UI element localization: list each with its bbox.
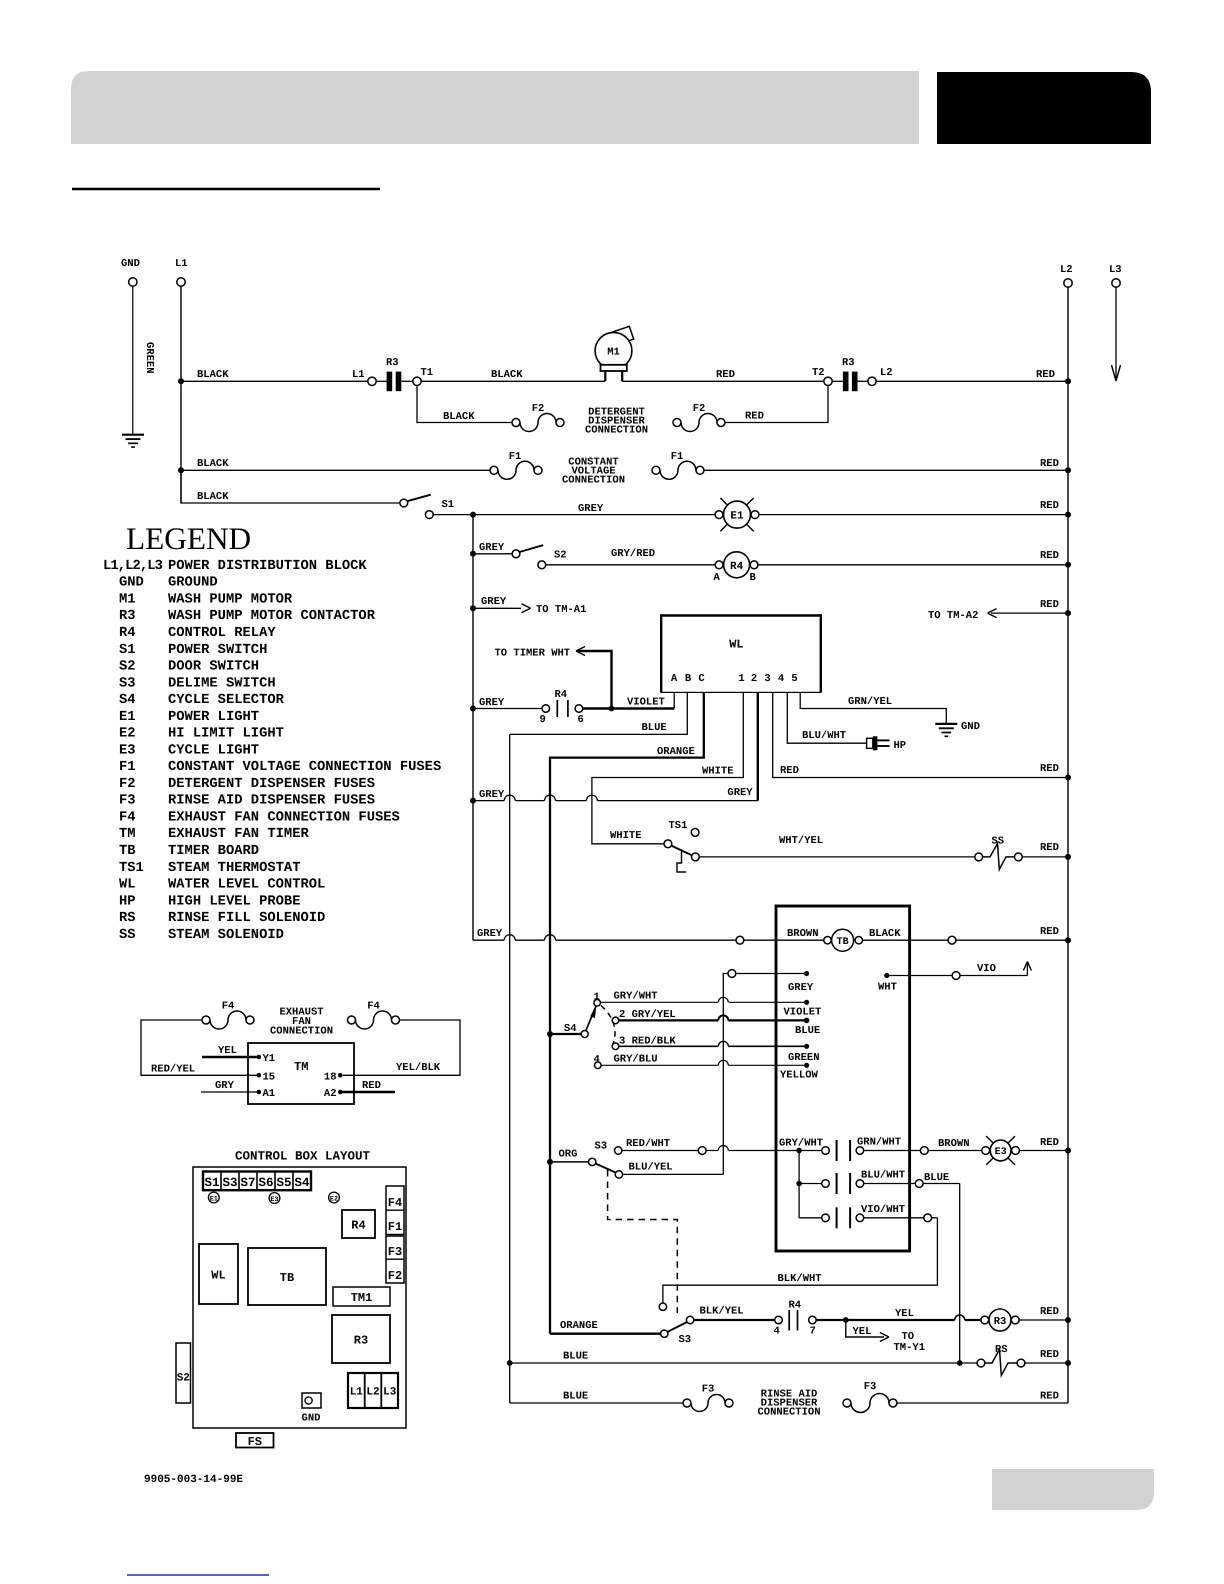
svg-text:L2: L2 [1060, 264, 1073, 276]
svg-text:YEL/BLK: YEL/BLK [396, 1062, 441, 1074]
motor M1 [609, 326, 634, 346]
svg-text:R3: R3 [386, 357, 399, 369]
svg-text:S4: S4 [564, 1023, 577, 1035]
relay contact GRN/WHT [822, 1147, 830, 1155]
switch S1 [400, 499, 408, 507]
svg-text:BLACK: BLACK [197, 369, 229, 381]
svg-text:POWER SWITCH: POWER SWITCH [168, 643, 267, 658]
junction orange rail S4 [547, 1031, 553, 1037]
wire RED/BLK S4-3 to TB [619, 1045, 719, 1047]
svg-text:1: 1 [738, 673, 744, 685]
svg-text:TM1: TM1 [351, 1291, 373, 1305]
door switch S2 box [176, 1343, 191, 1403]
wire GREY to S2 [473, 553, 512, 555]
svg-text:GREEN: GREEN [143, 342, 155, 374]
junction orange rail S3 [547, 1159, 553, 1165]
svg-text:E3: E3 [119, 743, 136, 758]
svg-text:RED: RED [1036, 369, 1055, 381]
fuse block F4 F1 [386, 1186, 404, 1235]
control box outline [193, 1167, 406, 1428]
svg-text:R3: R3 [842, 357, 855, 369]
wire ORANGE to S3 lower [550, 1333, 661, 1335]
wire RED R3 to rail [1019, 1319, 1068, 1321]
selector S4 pivot [581, 1031, 588, 1038]
svg-text:15: 15 [263, 1072, 276, 1084]
svg-text:A2: A2 [324, 1088, 337, 1100]
svg-text:S2: S2 [177, 1373, 190, 1385]
svg-text:L2: L2 [366, 1387, 379, 1399]
ground lug GND [302, 1393, 321, 1408]
svg-text:CONNECTION: CONNECTION [270, 1026, 333, 1038]
junction left rail top [470, 512, 476, 518]
svg-text:E1: E1 [210, 1195, 218, 1203]
svg-text:L1: L1 [175, 258, 188, 270]
switch S2 [512, 550, 520, 558]
junction GRY/WHT top [796, 1148, 802, 1154]
svg-text:GREY: GREY [788, 982, 814, 994]
svg-text:R4: R4 [730, 561, 744, 573]
wire VIO/WHT contact out [864, 1217, 924, 1219]
svg-text:WL: WL [119, 878, 136, 893]
svg-text:HI LIMIT LIGHT: HI LIMIT LIGHT [168, 727, 284, 742]
node RED/WHT connector [698, 1147, 706, 1155]
svg-text:CONNECTION: CONNECTION [585, 425, 648, 437]
junction BLUE rail RS [507, 1360, 513, 1366]
wire S4 common [550, 1033, 581, 1035]
svg-text:A1: A1 [263, 1088, 276, 1100]
wire BLACK TB to node [863, 939, 949, 941]
wire BROWN contact to E3 [864, 1150, 921, 1152]
pin 15 [257, 1073, 262, 1078]
svg-text:SS: SS [119, 928, 136, 943]
svg-text:E1: E1 [730, 511, 744, 523]
node S3 NC contact [615, 1147, 622, 1154]
svg-text:4: 4 [778, 673, 784, 685]
arrow VIO up [1026, 963, 1028, 976]
svg-text:TO TM-A1: TO TM-A1 [536, 604, 586, 616]
svg-text:GROUND: GROUND [168, 576, 218, 591]
svg-text:F2: F2 [693, 403, 706, 415]
junction L1 row1 [178, 378, 184, 384]
svg-text:GRY/RED: GRY/RED [611, 548, 655, 560]
svg-text:POWER LIGHT: POWER LIGHT [168, 710, 259, 725]
svg-text:E3: E3 [995, 1147, 1007, 1158]
wire left GREY rail [472, 515, 474, 941]
svg-text:F4: F4 [119, 810, 136, 825]
svg-text:CYCLE LIGHT: CYCLE LIGHT [168, 743, 259, 758]
svg-text:GND: GND [119, 576, 144, 591]
svg-text:ORG: ORG [559, 1149, 578, 1161]
wire BLU/YEL riser [723, 974, 728, 1175]
svg-text:BROWN: BROWN [938, 1138, 970, 1150]
svg-text:BLU/WHT: BLU/WHT [802, 730, 846, 742]
svg-text:GRN/YEL: GRN/YEL [848, 696, 892, 708]
svg-text:VIO: VIO [977, 963, 996, 975]
footer grey box [992, 1469, 1154, 1510]
svg-text:R4: R4 [789, 1300, 802, 1312]
node S3 lower NC [659, 1303, 666, 1310]
svg-text:L1: L1 [352, 369, 365, 381]
svg-text:BLU/YEL: BLU/YEL [629, 1162, 673, 1174]
node S4 position 3 [612, 1043, 619, 1050]
wire RED to L2 rail [876, 380, 1068, 382]
ground symbol GND right [935, 723, 957, 725]
wire BLU/WHT WL pin 4 to HP [787, 692, 866, 743]
wire RED F2 to T2 [725, 386, 828, 423]
svg-text:E2: E2 [330, 1195, 338, 1203]
svg-text:TM: TM [119, 827, 136, 842]
wire RED TB row to rail [956, 939, 1068, 941]
wire RED/YEL loop left [141, 1020, 257, 1075]
svg-text:STEAM THERMOSTAT: STEAM THERMOSTAT [168, 861, 300, 876]
node TB row right [948, 936, 956, 944]
junction L2 TB row [1065, 937, 1071, 943]
svg-text:R4: R4 [119, 626, 136, 641]
wire VIOLET R4 to WL pin A [583, 707, 675, 709]
svg-text:L2: L2 [880, 367, 893, 379]
wire L2 rail [1067, 287, 1069, 1403]
wire YEL TO TM-Y1 tap [846, 1320, 884, 1337]
svg-text:F2: F2 [532, 403, 545, 415]
svg-text:TB: TB [280, 1271, 294, 1285]
wire GRY/WHT S4-1 to TB [600, 1001, 717, 1003]
wire RED/WHT S3 to connector [622, 1150, 698, 1152]
contactor R3 box [332, 1315, 390, 1363]
node L2 contact [868, 377, 876, 385]
svg-text:RS: RS [119, 911, 136, 926]
svg-text:WHT: WHT [878, 982, 897, 994]
svg-text:GND: GND [961, 721, 980, 733]
wire BLACK T1 drop [417, 386, 512, 423]
svg-text:3 RED/BLK: 3 RED/BLK [619, 1036, 676, 1048]
wire BLACK L1 to S1 [181, 470, 400, 503]
svg-text:6: 6 [578, 714, 584, 726]
svg-text:A: A [714, 572, 721, 584]
svg-text:TS1: TS1 [119, 861, 144, 876]
wire GREY rail to WL pin 2 [473, 800, 504, 802]
relay coil R3 [981, 1316, 989, 1324]
svg-text:L3: L3 [383, 1387, 397, 1399]
junction rail GREY branch [470, 798, 476, 804]
wire RED TM-A2 stub [991, 612, 1068, 614]
svg-text:S4: S4 [119, 693, 136, 708]
svg-text:S7: S7 [240, 1176, 255, 1190]
svg-text:L3: L3 [1109, 264, 1122, 276]
svg-text:GRN/WHT: GRN/WHT [857, 1137, 901, 1149]
svg-text:GREY: GREY [479, 697, 505, 709]
junction L2 RS row [1065, 1360, 1071, 1366]
pin 18 [338, 1073, 343, 1078]
wire BLUE to RS [510, 1362, 977, 1364]
svg-text:RED/YEL: RED/YEL [151, 1064, 195, 1076]
svg-text:T2: T2 [812, 367, 825, 379]
wire BLUE WL pin B run [510, 692, 688, 734]
svg-text:TM-Y1: TM-Y1 [894, 1342, 926, 1354]
junction L2 R3 row [1065, 1317, 1071, 1323]
ground symbol GND [122, 434, 144, 436]
wire GREY feed to TB [736, 973, 804, 975]
svg-text:E2: E2 [119, 727, 136, 742]
svg-text:T1: T1 [421, 367, 434, 379]
wire GREY rail to TB row [473, 939, 504, 941]
svg-text:GRY/WHT: GRY/WHT [779, 1138, 823, 1150]
svg-text:F3: F3 [702, 1384, 715, 1396]
svg-text:RED: RED [716, 369, 735, 381]
pin Y1 [257, 1055, 262, 1060]
svg-text:RED: RED [1040, 500, 1059, 512]
junction L2 S1 row [1065, 512, 1071, 518]
linkage S3 dashed [608, 1170, 678, 1313]
svg-text:CONTROL RELAY: CONTROL RELAY [168, 626, 276, 641]
junction timer tap [609, 706, 615, 712]
selector S4 contact arc [601, 1006, 615, 1048]
svg-text:F4: F4 [222, 1001, 235, 1013]
svg-text:WATER LEVEL CONTROL: WATER LEVEL CONTROL [168, 878, 325, 893]
footer blue link underline [127, 1574, 269, 1576]
lamp E1 [715, 511, 723, 519]
svg-text:F1: F1 [509, 451, 522, 463]
svg-text:RED: RED [1040, 842, 1059, 854]
svg-text:5: 5 [791, 673, 797, 685]
svg-text:GRY/WHT: GRY/WHT [614, 991, 658, 1003]
svg-text:F3: F3 [119, 794, 136, 809]
svg-text:GRY: GRY [215, 1080, 235, 1092]
svg-text:F2: F2 [119, 777, 136, 792]
svg-text:RED: RED [780, 765, 799, 777]
svg-text:BLACK: BLACK [197, 491, 229, 503]
svg-text:ORANGE: ORANGE [657, 746, 695, 758]
svg-text:WHITE: WHITE [702, 766, 734, 778]
wire to contact 3 [799, 1217, 822, 1219]
svg-text:VIOLET: VIOLET [784, 1007, 822, 1019]
svg-text:TO TIMER WHT: TO TIMER WHT [495, 648, 571, 660]
svg-text:BLU/WHT: BLU/WHT [861, 1170, 905, 1182]
svg-text:9905-003-14-99E: 9905-003-14-99E [144, 1474, 243, 1486]
svg-text:F2: F2 [388, 1269, 402, 1283]
probe HP [867, 738, 873, 748]
svg-text:4: 4 [774, 1326, 780, 1338]
relay coil R4 [715, 561, 723, 569]
svg-text:RED: RED [1040, 1349, 1059, 1361]
svg-text:CONSTANT VOLTAGE CONNECTION FU: CONSTANT VOLTAGE CONNECTION FUSES [168, 760, 441, 775]
svg-text:VIO/WHT: VIO/WHT [861, 1204, 905, 1216]
wire to contact 1 [802, 1150, 822, 1152]
pin A2 [338, 1090, 343, 1095]
lamp E3 [982, 1147, 990, 1155]
svg-text:HP: HP [119, 894, 136, 909]
junction YEL branch [843, 1317, 849, 1323]
pilot light E2 [329, 1192, 340, 1203]
relay contact BLU/WHT [822, 1180, 830, 1188]
wire ORANGE WL pin C run [550, 692, 704, 757]
svg-text:CYCLE SELECTOR: CYCLE SELECTOR [168, 693, 285, 708]
timer board TB box [776, 906, 910, 1251]
svg-text:HP: HP [894, 740, 907, 752]
node S4 position 4 [595, 1062, 602, 1069]
svg-text:RED/WHT: RED/WHT [626, 1138, 670, 1150]
svg-text:B: B [685, 673, 692, 685]
svg-text:4: 4 [594, 1054, 600, 1066]
junction L2 row1 [1065, 378, 1071, 384]
svg-text:F4: F4 [367, 1001, 380, 1013]
wire WHT to VIO [889, 975, 952, 977]
wire RED M1 to T2 [622, 380, 824, 382]
wire BLU/YEL S3 to riser [623, 1173, 724, 1175]
svg-text:GND: GND [302, 1413, 321, 1425]
wire WHITE WL pin 1 to TS1 [592, 692, 743, 843]
wire RED WL pin 3 to rail [773, 692, 1068, 777]
node T1 contact [413, 377, 421, 385]
wire WL pin A drop [673, 692, 675, 708]
junction L2 row2 [1065, 467, 1071, 473]
svg-text:TM: TM [294, 1060, 308, 1074]
svg-text:TIMER BOARD: TIMER BOARD [168, 844, 259, 859]
node TB row left [736, 936, 744, 944]
svg-text:BLACK: BLACK [491, 369, 523, 381]
svg-text:DOOR SWITCH: DOOR SWITCH [168, 660, 259, 675]
wire BLACK L1 to F1 [181, 469, 490, 471]
svg-text:RED: RED [362, 1080, 381, 1092]
svg-text:S2: S2 [119, 660, 136, 675]
svg-text:BLK/WHT: BLK/WHT [778, 1273, 822, 1285]
switch S3 lower [661, 1330, 668, 1337]
wire GREY TM-A1 stub [473, 607, 521, 609]
svg-text:RED: RED [1040, 550, 1059, 562]
svg-text:F1: F1 [388, 1220, 402, 1234]
svg-text:L1: L1 [350, 1387, 364, 1399]
svg-text:BLACK: BLACK [443, 411, 475, 423]
wire L3 lead [1115, 287, 1117, 380]
svg-text:F1: F1 [671, 451, 684, 463]
fuse FS box [236, 1433, 274, 1448]
wire RED R4 to rail [759, 564, 1068, 566]
svg-text:RED: RED [1040, 1391, 1059, 1403]
svg-text:RINSE AID DISPENSER FUSES: RINSE AID DISPENSER FUSES [168, 794, 375, 809]
svg-text:WL: WL [729, 637, 743, 651]
wire BROWN to TB [744, 939, 824, 941]
svg-text:M1: M1 [607, 347, 620, 359]
svg-text:7: 7 [810, 1326, 816, 1338]
wire BLUE to F3 [510, 1402, 683, 1404]
wire BLUE contact to riser [864, 1183, 916, 1185]
wire RED/WHT connector to contact [706, 1150, 718, 1152]
svg-text:M1: M1 [119, 592, 136, 607]
svg-text:GREY: GREY [479, 789, 505, 801]
svg-text:BLUE: BLUE [563, 1351, 588, 1363]
exhaust fan timer TM box [248, 1043, 354, 1104]
wire to contact 2 [799, 1183, 822, 1185]
svg-text:FS: FS [248, 1435, 262, 1449]
svg-text:EXHAUST FAN CONNECTION FUSES: EXHAUST FAN CONNECTION FUSES [168, 810, 400, 825]
svg-text:BLUE: BLUE [924, 1172, 949, 1184]
wire GREY S1 to E1 [433, 514, 719, 516]
junction rail S2 branch [470, 551, 476, 557]
water level control WL [661, 616, 821, 693]
junction rail TM-A1 branch [470, 605, 476, 611]
svg-text:R4: R4 [555, 689, 568, 701]
svg-text:BLK/YEL: BLK/YEL [700, 1306, 744, 1318]
svg-text:RED: RED [1040, 1306, 1059, 1318]
svg-text:YEL: YEL [895, 1308, 914, 1320]
svg-text:S1: S1 [119, 643, 136, 658]
svg-text:VIOLET: VIOLET [627, 697, 665, 709]
wire GND green lead [132, 286, 134, 433]
wire RED SS to rail [1022, 856, 1068, 858]
wire BLACK L1 to R3 contact [181, 380, 368, 382]
svg-text:R3: R3 [994, 1316, 1007, 1328]
wire BLK/YEL S3 to R4 [694, 1319, 775, 1321]
wire BLACK T1 to M1 [421, 380, 605, 382]
svg-text:A: A [671, 673, 678, 685]
svg-text:2 GRY/YEL: 2 GRY/YEL [619, 1009, 676, 1021]
header grey bar [71, 71, 919, 144]
svg-text:CONNECTION: CONNECTION [757, 1407, 820, 1419]
svg-text:S3: S3 [222, 1176, 237, 1190]
svg-text:3: 3 [764, 673, 770, 685]
title underline [72, 188, 380, 191]
svg-text:TB: TB [119, 844, 136, 859]
svg-text:B: B [750, 572, 757, 584]
svg-text:18: 18 [324, 1072, 337, 1084]
svg-text:WHITE: WHITE [610, 830, 642, 842]
svg-text:BLUE: BLUE [795, 1025, 820, 1037]
svg-text:R3: R3 [354, 1334, 368, 1348]
svg-text:E3: E3 [270, 1196, 278, 1204]
pin A1 [257, 1090, 262, 1095]
svg-text:WASH PUMP MOTOR CONTACTOR: WASH PUMP MOTOR CONTACTOR [168, 609, 376, 624]
svg-text:TO TM-A2: TO TM-A2 [928, 610, 978, 622]
wire GREY WL pin 2 drop [757, 692, 759, 800]
wire GRY/RED S2 to R4 [546, 564, 719, 566]
wire L1 rail [180, 286, 182, 503]
timer board TB coil [824, 937, 831, 944]
wire GRY/WHT bus [798, 1151, 800, 1218]
wire ORG S3 common [550, 1161, 589, 1163]
svg-text:RED: RED [1040, 1137, 1059, 1149]
svg-text:BLUE: BLUE [563, 1391, 588, 1403]
svg-text:C: C [698, 673, 705, 685]
switch S3 upper [589, 1158, 596, 1165]
svg-text:RINSE FILL SOLENOID: RINSE FILL SOLENOID [168, 911, 325, 926]
junction L2 SS row [1065, 854, 1071, 860]
svg-text:GRY/BLU: GRY/BLU [614, 1054, 658, 1066]
wire GREY to R4 contact [473, 708, 542, 710]
junction L2 TM-A2 row [1065, 610, 1071, 616]
pilot light E3 [269, 1193, 280, 1204]
svg-text:EXHAUST FAN TIMER: EXHAUST FAN TIMER [168, 827, 309, 842]
svg-text:Y1: Y1 [263, 1053, 276, 1065]
svg-text:YEL: YEL [218, 1045, 237, 1057]
svg-text:1: 1 [594, 992, 600, 1004]
pilot light E1 [208, 1192, 219, 1203]
selector S4 arm [586, 1006, 596, 1030]
svg-text:S4: S4 [294, 1176, 310, 1190]
wire YEL R4 to R3 [816, 1319, 955, 1321]
svg-text:S3: S3 [595, 1141, 608, 1153]
node GREY feed [728, 970, 736, 978]
svg-text:RED: RED [745, 411, 764, 423]
junction L2 E3 row [1065, 1148, 1071, 1154]
svg-text:CONTROL BOX LAYOUT: CONTROL BOX LAYOUT [235, 1150, 371, 1164]
svg-text:S1: S1 [204, 1176, 219, 1190]
svg-text:RED: RED [1040, 926, 1059, 938]
wire YEL/BLK loop right [343, 1020, 460, 1075]
svg-text:GREY: GREY [578, 503, 604, 515]
svg-text:POWER DISTRIBUTION BLOCK: POWER DISTRIBUTION BLOCK [168, 559, 367, 574]
svg-text:S3: S3 [119, 676, 136, 691]
svg-text:S1: S1 [442, 499, 455, 511]
svg-text:TS1: TS1 [669, 820, 688, 832]
